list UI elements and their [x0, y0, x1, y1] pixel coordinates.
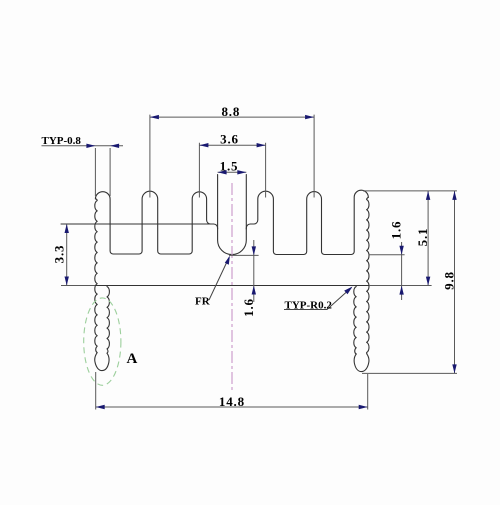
arrowheads dim 8.8	[150, 115, 159, 119]
right prong left serrated edge	[354, 287, 356, 355]
svg-text:A: A	[127, 351, 138, 367]
svg-text:3.6: 3.6	[220, 132, 239, 147]
dim 8.8 line and extensions	[150, 115, 314, 198]
TYP-R0.2 underline and leader	[284, 288, 352, 310]
svg-text:1.6: 1.6	[389, 221, 404, 240]
arrowheads dim 14.8	[96, 405, 105, 409]
dim 1.6 middle line and extension	[229, 240, 259, 302]
svg-text:14.8: 14.8	[219, 394, 245, 409]
dim 3.6 line and extensions	[199, 143, 265, 198]
dim 1.5 line	[218, 171, 247, 173]
arrowhead FR leader	[225, 256, 230, 265]
heatsink profile outline: fins and slots	[95, 190, 368, 254]
base top surface line	[61, 223, 214, 225]
dim 5.1 line and top extension	[363, 191, 457, 286]
arrowheads dim TYP-0.8 outside	[86, 144, 95, 148]
left leg serrated edge and prong	[95, 199, 109, 371]
svg-text:8.8: 8.8	[221, 104, 240, 119]
screw channel right wall	[245, 175, 247, 230]
arrowhead TYP-R0.2 leader	[344, 287, 352, 295]
arrowheads dim 9.8	[452, 191, 456, 200]
arrowheads dim 3.3	[65, 224, 69, 233]
screw channel left wall	[217, 175, 219, 230]
arrowheads dim 3.6	[199, 143, 208, 147]
svg-text:TYP-R0.2: TYP-R0.2	[285, 299, 333, 311]
arrowheads dim 1.5	[218, 170, 227, 174]
svg-text:1.6: 1.6	[241, 298, 256, 317]
svg-text:TYP-0.8: TYP-0.8	[42, 135, 82, 147]
dim 1.6 right line and extension	[369, 242, 405, 300]
pink dash-dot centerline of screw channel	[231, 183, 233, 391]
dim 14.8 line and extensions	[96, 372, 368, 410]
arrowheads dim 1.6 right outside	[399, 246, 403, 255]
base bottom surface line	[95, 285, 369, 287]
dim 9.8 line and bottom extension	[362, 191, 457, 374]
svg-text:1.5: 1.5	[220, 159, 239, 174]
svg-text:5.1: 5.1	[415, 228, 430, 247]
dim 3.3 line	[66, 224, 68, 286]
right leg serrated outer edge and prong	[354, 197, 369, 371]
svg-text:3.3: 3.3	[52, 245, 67, 264]
arrowheads dim 1.6 middle outside	[252, 246, 256, 255]
dim TYP-0.8 line and extensions	[42, 146, 124, 196]
extension of base bottom to the right	[61, 285, 432, 287]
green dashed detail ellipse A	[84, 298, 121, 385]
left prong right serrated edge	[107, 287, 109, 354]
svg-text:9.8: 9.8	[442, 271, 457, 290]
svg-text:FR: FR	[195, 295, 211, 307]
FR leader line	[209, 258, 229, 301]
arrowheads dim 5.1	[426, 191, 430, 200]
